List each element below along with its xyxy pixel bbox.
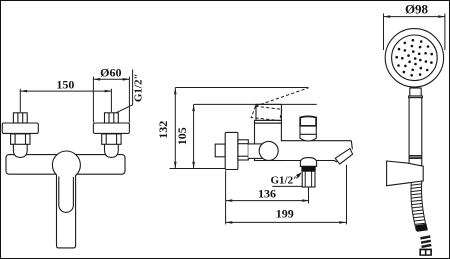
right hex nut bbox=[102, 134, 121, 144]
shower outlet threaded connector bbox=[302, 171, 315, 187]
svg-text:199: 199 bbox=[276, 207, 294, 221]
svg-text:105: 105 bbox=[175, 127, 189, 145]
diverter knob on spout bbox=[300, 116, 316, 141]
dimension 136 bbox=[226, 186, 309, 202]
lever top line (extension 132) bbox=[175, 87, 308, 89]
raised handle (dashed) bbox=[251, 88, 308, 121]
svg-text:132: 132 bbox=[156, 121, 170, 139]
hex nut (side) bbox=[238, 140, 248, 160]
wall flange (side) bbox=[225, 132, 238, 169]
dimension Ø98 bbox=[384, 2, 445, 50]
dimension Ø60 bbox=[93, 65, 129, 122]
extension line flange edge down bbox=[225, 171, 227, 225]
left wall union: dome connector bbox=[13, 144, 27, 157]
extension line spout tip down bbox=[346, 165, 348, 225]
hose coupling nut bbox=[419, 249, 432, 256]
shower face inner circle bbox=[392, 35, 438, 81]
flexible hose bbox=[411, 181, 427, 231]
extension line shower outlet down bbox=[308, 187, 310, 204]
svg-text:Ø60: Ø60 bbox=[100, 65, 121, 79]
shower head neck bbox=[409, 88, 423, 98]
union circle on body bbox=[259, 141, 278, 160]
inlet cylinder bbox=[248, 144, 263, 159]
left hex nut bbox=[11, 134, 30, 144]
dimension 105 (vertical) bbox=[175, 104, 195, 168]
lever bottom line (extension 105) bbox=[194, 103, 317, 105]
spout end cap (aerator) bbox=[335, 149, 352, 165]
wall square stub bbox=[215, 144, 225, 157]
label G1/2" (middle figure) with underline leader and arrow bbox=[270, 172, 302, 186]
handle inner contour U bbox=[59, 177, 74, 213]
handle tube bbox=[409, 98, 422, 166]
shower outlet black seal band bbox=[301, 166, 315, 171]
mixer body (front) bbox=[6, 155, 125, 175]
svg-text:136: 136 bbox=[258, 186, 276, 200]
left wall flange bbox=[2, 123, 38, 133]
cartridge cap circle bbox=[52, 151, 80, 179]
datum extension line bbox=[170, 168, 226, 170]
label G1/2" (left figure) with leader bbox=[117, 70, 145, 113]
handle knob (solid) bbox=[255, 104, 282, 123]
right wall union: dome connector bbox=[105, 144, 119, 157]
dimension 199 bbox=[226, 207, 346, 224]
dimension 132 (vertical) bbox=[156, 88, 177, 169]
svg-text:Ø98: Ø98 bbox=[405, 2, 429, 17]
right top square nut bbox=[105, 113, 119, 123]
spray nozzle dots bbox=[395, 39, 433, 77]
right wall flange bbox=[93, 123, 129, 133]
svg-text:G1/2″: G1/2″ bbox=[132, 73, 144, 102]
shower outlet dome bbox=[300, 158, 316, 167]
shower head outer circle bbox=[385, 29, 443, 87]
left top square nut bbox=[13, 113, 27, 123]
svg-text:150: 150 bbox=[56, 77, 74, 91]
spout tube bbox=[280, 141, 352, 162]
lever handle shaft (front) bbox=[57, 175, 76, 248]
valve body (side) bbox=[255, 123, 282, 160]
svg-text:G1/2″: G1/2″ bbox=[270, 175, 299, 187]
dimension 150 bbox=[20, 77, 111, 112]
wall bracket cone bbox=[387, 161, 424, 186]
hose end ribs bbox=[416, 224, 432, 247]
